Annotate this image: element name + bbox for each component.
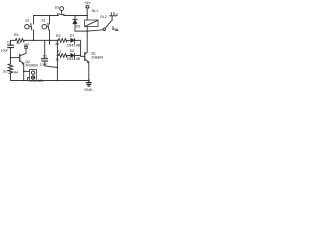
wire D3 down to node [74,24,76,31]
transistor Q1 base bar [84,53,86,61]
switch S2 button circle [25,25,29,29]
switch S2 stub [29,26,31,28]
svg-text:2k2: 2k2 [3,70,8,74]
ground [86,81,91,87]
capacitor C1 top lead [44,40,46,58]
svg-text:C1: C1 [43,55,48,59]
node C1 rail junction [44,40,45,41]
svg-text:+5V: +5V [23,42,30,46]
wire D2 to bus [75,55,81,57]
buzzer BZ1 lower circle [31,76,34,79]
svg-text:10uF: 10uF [1,49,9,53]
node D3 rail junction [74,15,76,17]
wire coil bottom [86,27,88,32]
node Q2 emitter rail junction [23,80,25,82]
wire lower rail mid [24,39,58,41]
svg-text:2N3904: 2N3904 [91,55,103,59]
capacitor C2 top lead [10,40,12,45]
switch S2 lever [31,23,32,30]
svg-text:2k: 2k [56,57,60,61]
wire lower rail left lead [11,39,16,41]
transistor Q1 emitter arrow [87,62,89,64]
resistor R3 [15,39,24,43]
transistor Q2 emitter arrow [22,63,24,65]
output terminal pads [110,13,117,16]
switch S3 stem [60,11,62,14]
switch S1 button circle [42,24,47,29]
svg-text:GND: GND [84,88,92,92]
power +9V terminal [85,5,89,9]
svg-text:R4: R4 [14,70,18,74]
diode D1 [71,38,75,42]
svg-text:RL1: RL1 [92,9,98,13]
node S2 lower rail junction [33,40,35,42]
svg-text:R3: R3 [14,33,19,37]
svg-text:2k: 2k [55,42,59,46]
diode D3 cathode bar [73,19,77,21]
wire S1 to lower rail [49,30,51,44]
capacitor C1 plates [42,59,48,61]
relay contact lever [105,21,111,29]
svg-text:R2: R2 [56,34,61,38]
relay RL1 coil diagonal [85,20,98,26]
resistor R1 [58,54,67,58]
capacitor C1 bottom lead [45,61,58,67]
svg-text:D1: D1 [70,34,75,38]
node Q2 base junction [10,57,12,59]
switch S3 lever [58,14,65,15]
transistor Q1 collector lead [85,52,88,54]
wire top rail right segment [64,14,87,15]
relay RL1 coil box [85,20,98,27]
wire +9V stem [86,9,88,20]
diode D3 branch [74,16,76,20]
node R1 branch junction [57,55,59,57]
wire R1 lead [56,55,59,57]
svg-text:D2: D2 [70,49,75,53]
wire buzzer lower stub [28,78,30,81]
capacitor C1 polarity plus [41,58,42,59]
wire base bus [81,40,85,56]
junction dots [10,15,90,82]
transistor Q1 emitter [85,59,89,62]
wire Q2 base stub [11,57,20,59]
wire R2 to D1 [67,39,71,41]
resistor R2 [58,39,67,43]
diode D2 [71,53,75,57]
switch S3 button circle [60,7,64,11]
svg-text:S3: S3 [55,6,59,10]
relay contact output stem [111,16,113,21]
switch S3 tick left [57,14,59,16]
buzzer BZ1 box [30,70,37,81]
wire top rail left segment [34,15,59,17]
node rail-S2 corner [33,16,35,25]
svg-text:D3: D3 [76,25,81,29]
svg-text:2N3904: 2N3904 [25,63,37,67]
svg-text:R1: R1 [57,49,62,53]
transistor Q2 base bar [19,54,21,61]
node ground rail junction [88,80,90,82]
node S1 top junction [49,15,51,17]
resistor R4 vertical [8,64,12,74]
relay contact pivot [103,28,105,30]
node +9V rail junction [86,15,88,17]
capacitor C2 bottom lead [10,48,12,64]
wire Q1 collector [86,31,88,52]
switch S1 stub [47,26,49,28]
wire Q2 emitter down [23,63,25,80]
wire branch down x57 [56,40,58,80]
wire buzzer top stub [24,70,30,72]
svg-text:RL2: RL2 [100,15,106,19]
wire coil bottom node to contact [75,30,103,31]
svg-text:S1: S1 [41,19,45,23]
switch S1 lever [47,23,50,30]
svg-text:1N4148: 1N4148 [66,56,80,61]
svg-text:1k: 1k [16,41,20,45]
diode D3 triangle [73,20,77,24]
wire S1 upper [49,16,51,25]
labels [1,1,107,92]
svg-text:C2: C2 [7,40,11,44]
svg-text:+9V: +9V [84,1,91,5]
power +5V terminal [24,45,28,49]
wire R1 to D2 [67,55,71,57]
transistor Q2 emitter [20,61,24,64]
node x57 rail bottom junction [57,80,59,82]
buzzer BZ1 upper circle [31,71,34,74]
wire D1 to bus [75,39,81,41]
wire bottom rail [11,80,89,82]
wire Q1 emitter down [88,62,90,81]
node C1 bottom junction [57,67,59,69]
node x57 rail junction [57,40,59,42]
wire R4 to bottom rail [10,74,12,81]
node buzzer top junction [23,71,25,73]
transistor Q2 collector [20,49,26,56]
relay fixed contact [112,27,118,31]
svg-text:BZ1: BZ1 [38,79,44,83]
node coil bottom junction [86,30,88,32]
node S1 lower rail junction [49,40,51,42]
capacitor C2 plates [8,45,14,47]
wire S2 to lower rail [33,30,35,40]
svg-text:S2: S2 [25,19,29,23]
svg-text:10uF: 10uF [40,62,48,66]
svg-text:1N4148: 1N4148 [66,43,80,48]
